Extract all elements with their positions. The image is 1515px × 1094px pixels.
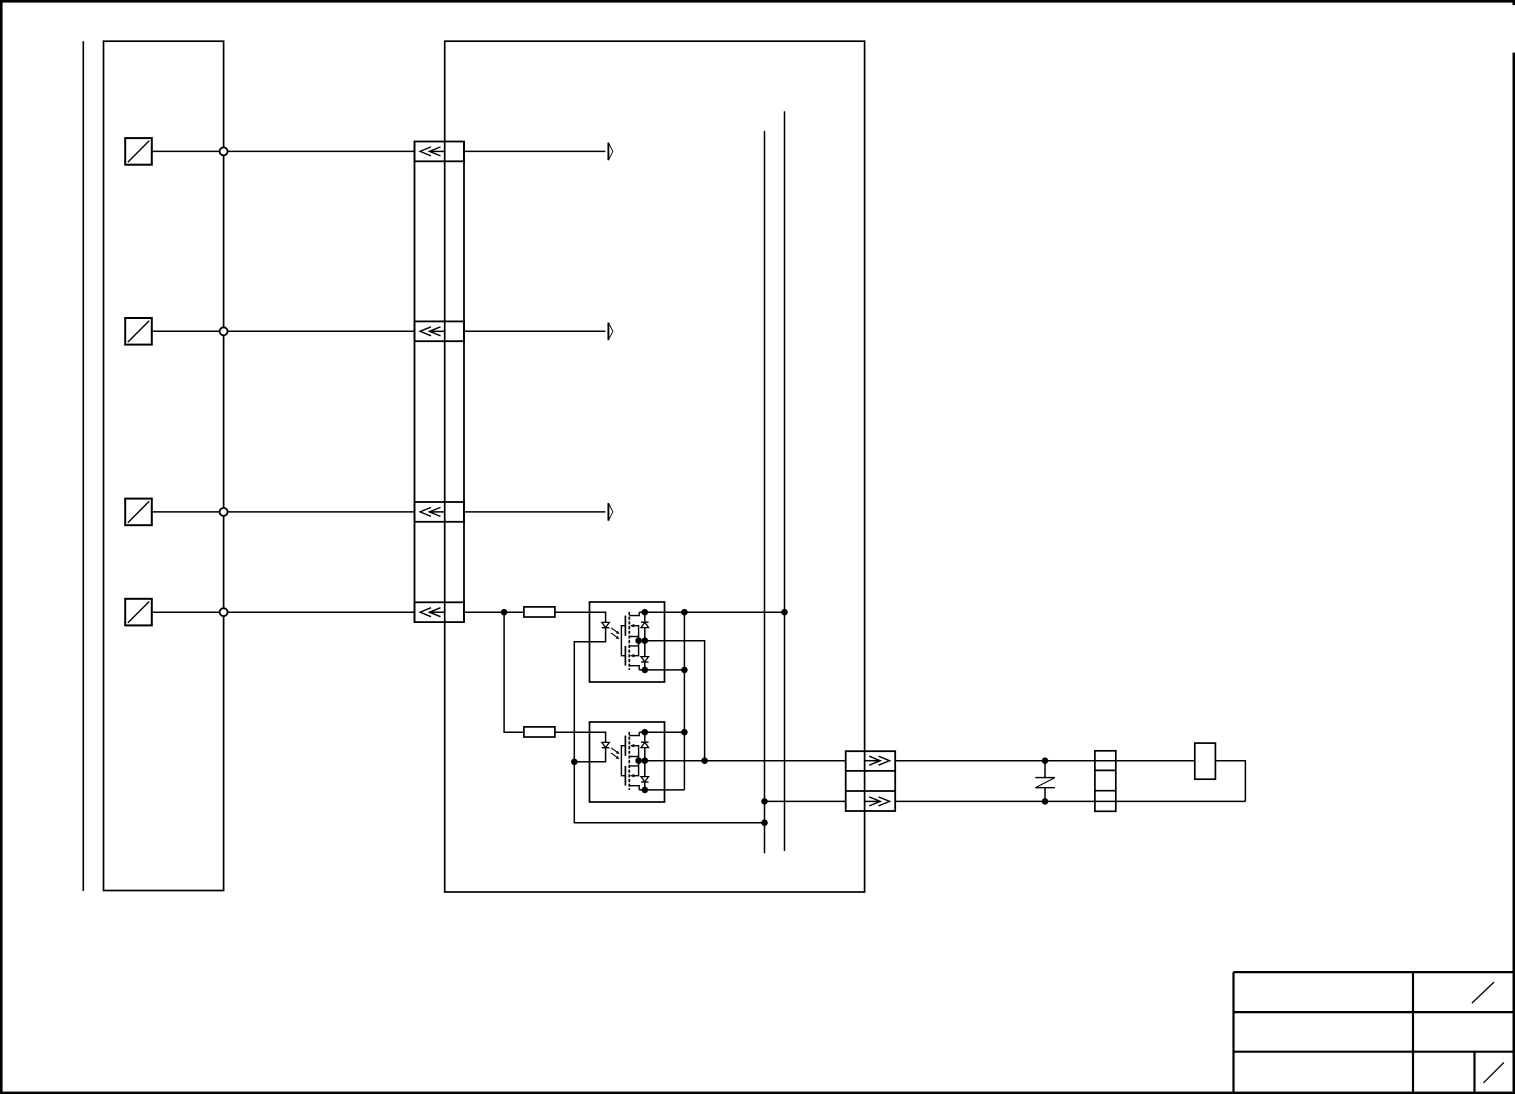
opto-relay U2: [590, 722, 665, 802]
wire R2 to U2: [555, 731, 590, 733]
sensor B4: [125, 599, 152, 626]
wire output 2: [895, 800, 1245, 802]
wire bus1 to output 2: [765, 800, 846, 802]
opto-relay U1: [590, 602, 665, 682]
terminal X1.3: [415, 502, 465, 522]
node top rail link: [681, 609, 688, 616]
resistor R2: [524, 727, 555, 737]
wire left rail: [82, 41, 84, 891]
node row2: [220, 327, 228, 335]
wire B3 to terminal: [152, 511, 415, 513]
wire bus1: [764, 131, 766, 853]
wire bus2: [784, 111, 786, 851]
border frame top bar: [0, 0, 1515, 3]
load M1: [1195, 743, 1216, 779]
border frame left: [0, 0, 3, 1094]
cabinet box: [445, 41, 865, 892]
sensor B2: [125, 318, 152, 345]
wire LED2 return: [574, 761, 589, 763]
wire U1 bottom rail: [665, 669, 685, 671]
wire LED1 return: [574, 642, 764, 823]
terminal block X1 rails: [415, 142, 465, 623]
node LED return bus1: [761, 819, 768, 826]
wire U2 top rail: [665, 731, 685, 733]
wire U2 source to output: [665, 760, 846, 762]
wire signal 1 out: [464, 150, 605, 152]
terminal X1.4: [415, 602, 465, 622]
node row1: [220, 147, 228, 155]
node row4: [220, 608, 228, 616]
arrow signal 1: [608, 143, 613, 161]
terminal X2.2 plug: [865, 797, 890, 806]
terminal block X3: [1095, 751, 1116, 812]
terminal block X2: [846, 751, 896, 811]
wire output 1: [895, 760, 1195, 762]
node row3: [220, 508, 228, 516]
title slash 2: [1483, 1063, 1504, 1083]
wire row4 to R1: [464, 611, 524, 613]
node LED2 return join: [571, 759, 578, 766]
surge arrester F1: [1035, 761, 1055, 802]
node U2 top link: [681, 729, 688, 736]
wire load return: [1215, 761, 1245, 802]
wire B2 to terminal: [152, 330, 415, 332]
border frame right: [1513, 53, 1515, 1092]
title slash 1: [1472, 982, 1494, 1003]
sensor B3: [125, 499, 152, 526]
node arrester top: [1042, 757, 1049, 764]
wire branch down to R2: [504, 612, 524, 732]
terminal X1.1: [415, 142, 465, 162]
wire B4 to terminal: [152, 611, 415, 613]
wire U1 top rail to bus2: [665, 611, 785, 613]
wire U1 source to U2 source: [665, 641, 705, 761]
node U1 bottom link: [681, 667, 688, 674]
arrow signal 3: [608, 503, 613, 521]
resistor R1: [524, 607, 555, 617]
border frame bottom bar: [0, 1092, 1515, 1094]
node arrester bottom: [1042, 798, 1049, 805]
node bus1 output: [761, 798, 768, 805]
left field box: [104, 41, 224, 890]
node branch row4: [501, 609, 508, 616]
wire series link: [683, 612, 685, 790]
terminal X1.2: [415, 321, 465, 341]
title block: [1234, 972, 1513, 1092]
wire R1 to U1: [555, 611, 590, 613]
arrow signal 2: [608, 323, 613, 341]
wire U2 bottom rail: [665, 789, 685, 791]
node top rail bus2: [781, 609, 788, 616]
wire signal 3 out: [464, 511, 605, 513]
wire B1 to terminal: [152, 150, 415, 152]
wire signal 2 out: [464, 330, 605, 332]
sensor B1: [125, 138, 152, 165]
node source link: [701, 757, 708, 764]
terminal X2.1 plug: [865, 756, 890, 765]
